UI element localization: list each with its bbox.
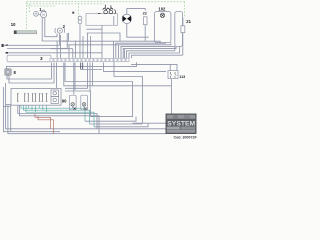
- terminal strip squares: [50, 58, 129, 61]
- label N block: [2, 44, 4, 47]
- wire teal 1: [21, 106, 85, 122]
- thermostat 8a (double circle): [78, 16, 82, 25]
- wire bottom long 1: [6, 103, 11, 105]
- coloured wires: [21, 106, 94, 134]
- wire strip drop f: [74, 63, 76, 91]
- wire strip drop extra: [56, 63, 58, 89]
- wire teal 3: [26, 106, 94, 127]
- wire fan top link: [127, 9, 145, 15]
- wire comp8 top: [7, 62, 137, 69]
- wire strip drop i: [92, 63, 94, 86]
- wire mid v6: [87, 33, 89, 58]
- wire cascade grey 3: [94, 123, 148, 127]
- svg-text:22: 22: [143, 12, 147, 16]
- svg-text:31: 31: [84, 106, 88, 110]
- wire compressor drop: [101, 25, 103, 58]
- motor M1 (component 1, left circle): [34, 11, 39, 16]
- heater element 102: [155, 12, 171, 43]
- wire compressor left: [87, 28, 103, 30]
- wire board drop 1: [18, 105, 97, 129]
- wire mid v7: [90, 36, 92, 58]
- terminal tick L1: [6, 44, 8, 46]
- wire long loop via 114: [114, 58, 166, 123]
- pump P1 (component 1, right circle): [41, 10, 47, 18]
- logo box SYSTEM: [166, 114, 196, 134]
- wire below strip dark pair: [80, 63, 82, 70]
- svg-text:102: 102: [158, 7, 166, 12]
- heater element 2: [175, 12, 183, 47]
- svg-text:30: 30: [73, 106, 77, 110]
- wire bundle 4: [121, 46, 175, 58]
- svg-text:90: 90: [62, 98, 67, 103]
- wire below strip h69: [81, 69, 102, 71]
- wire comp1 link: [38, 13, 40, 15]
- wire bundle 1: [62, 41, 160, 58]
- junction mark: [72, 12, 74, 14]
- board relay cells: [51, 90, 59, 103]
- wire teal 5: [31, 106, 33, 111]
- wire bundle 3: [67, 43, 171, 59]
- enclosure dashed border (green) top line: [27, 2, 186, 31]
- wire mid v5: [82, 36, 84, 58]
- klixon (motor protector): [98, 5, 115, 15]
- wire teal 7: [38, 106, 40, 109]
- wire comp2 side drop: [66, 33, 68, 49]
- wire strip drop c: [64, 63, 172, 86]
- terminal tick PE: [6, 52, 8, 54]
- wire bundle 9 (comp21): [132, 55, 183, 58]
- wire board drop 2: [20, 105, 100, 134]
- heater 102 indicator: [160, 13, 164, 17]
- wire comp1 leg b: [45, 18, 57, 37]
- wire comp8top to strip: [79, 25, 81, 58]
- wire strip right run: [104, 63, 167, 72]
- motor 2: [55, 28, 65, 33]
- wire strip drop h: [89, 63, 91, 92]
- wire mid v2: [68, 45, 70, 59]
- wire teal 4: [27, 106, 29, 109]
- wire cascade grey 1: [85, 117, 136, 122]
- wire mid v3: [72, 49, 74, 59]
- wire teal 6: [35, 106, 37, 113]
- wire comp113 feed b: [169, 64, 171, 70]
- svg-text:3: 3: [40, 56, 43, 61]
- wire cap drop: [144, 25, 146, 42]
- wire strip drop g: [65, 63, 88, 89]
- control board: [11, 88, 61, 105]
- wire comp113 bottom: [170, 79, 172, 114]
- wire comp1 leg a: [42, 18, 68, 42]
- pressure switch 8: [5, 69, 11, 75]
- wire comp21 top: [182, 18, 184, 26]
- solenoid 31: [81, 95, 88, 110]
- terminal strip 3: [7, 55, 51, 62]
- compressor box: [86, 14, 118, 26]
- wire mid v1: [56, 41, 58, 59]
- connector bar 10: [14, 31, 37, 34]
- wire supply PE: [7, 52, 102, 54]
- svg-text:Cod. 300072F: Cod. 300072F: [174, 136, 198, 140]
- enclosure dashed left edge: [26, 2, 28, 31]
- door switch 113: [168, 71, 178, 79]
- enclosure dashed mid vertical: [77, 3, 79, 20]
- wire bundle 7: [127, 51, 175, 59]
- wire lamp drop 31: [83, 106, 85, 110]
- wire red 2: [38, 116, 54, 134]
- wire below strip a: [7, 63, 52, 80]
- wire red 1: [35, 114, 51, 129]
- wire teal 8: [42, 106, 44, 111]
- solenoid 30: [69, 95, 76, 110]
- wire fan drop: [127, 23, 149, 37]
- wire klixon drop: [113, 16, 115, 25]
- wire comp2 drop: [59, 33, 61, 45]
- wire bottom long 3: [8, 105, 166, 134]
- wire supply L: [4, 44, 60, 46]
- resistor 22: [144, 17, 148, 25]
- wire bundle 8: [129, 53, 180, 58]
- wire below strip b: [9, 63, 54, 84]
- wire strip drop e: [73, 63, 75, 95]
- wire bundle 6: [124, 49, 126, 59]
- svg-text:21: 21: [186, 19, 191, 24]
- fan motor: [122, 14, 131, 23]
- svg-text:10: 10: [11, 22, 16, 27]
- wire strip drop d: [65, 63, 133, 117]
- wire board left drop 4: [10, 105, 12, 132]
- fuse 21: [181, 26, 185, 33]
- wire bottom long 2: [3, 105, 11, 107]
- svg-text:113: 113: [179, 75, 185, 79]
- wire cascade grey 2: [90, 123, 143, 125]
- wire bundle 2: [116, 43, 166, 59]
- wire bundle 5: [123, 46, 176, 58]
- wires grey: [3, 9, 183, 134]
- wire mid v4: [74, 41, 76, 59]
- wire comp2 bottom to strip: [60, 35, 62, 58]
- wire teal 9: [45, 106, 47, 113]
- wire compressor bottom: [87, 33, 121, 41]
- wire supply N: [7, 48, 67, 50]
- enclosure dashed right edge: [184, 2, 186, 18]
- wire teal 2: [24, 106, 90, 125]
- svg-text:SYSTEM: SYSTEM: [167, 120, 195, 127]
- board pins: [17, 94, 47, 101]
- wire mid h3: [51, 48, 73, 50]
- wire lamp drop 30: [72, 106, 74, 108]
- wire comp113 feed a: [131, 64, 177, 70]
